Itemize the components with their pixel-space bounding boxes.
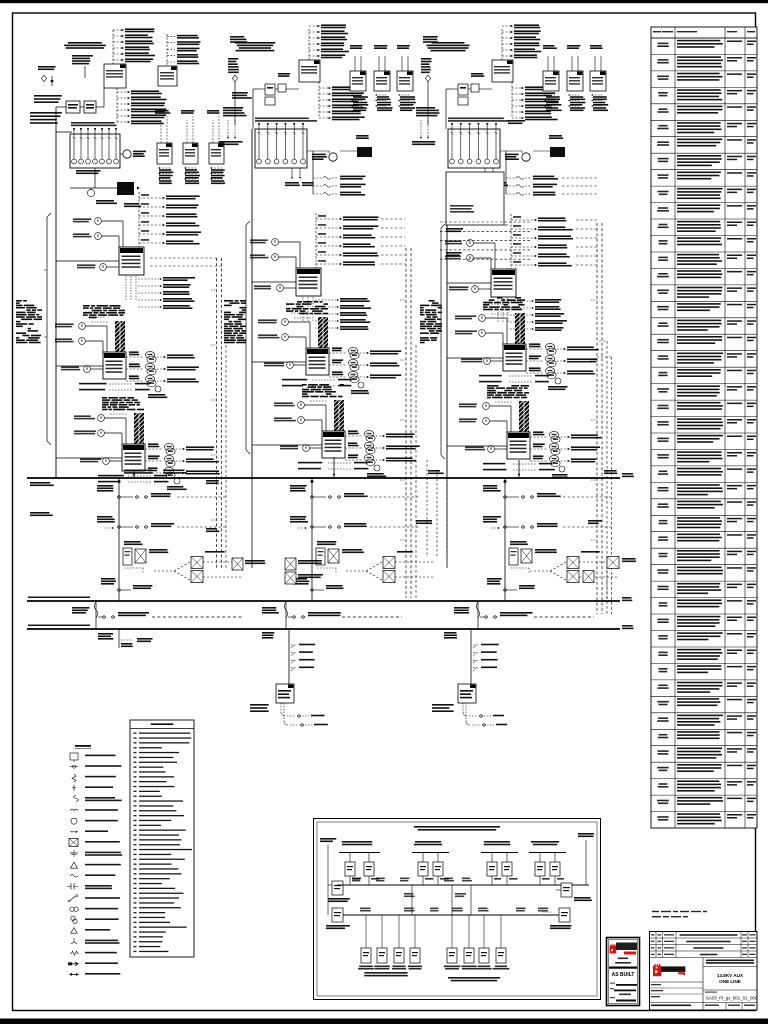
- T3 output drops to bus1: [133, 471, 135, 478]
- wire lockout to transformer 1A-T3: [109, 460, 122, 462]
- riser label column: [421, 58, 432, 125]
- bay C feeder desc: [420, 300, 442, 343]
- relay 52-A2: [158, 66, 177, 86]
- transformer 1A-T2: [103, 352, 126, 379]
- inset tier A to B drops: [411, 885, 413, 915]
- lockout relay transformer 1B-T2: [264, 362, 293, 369]
- dashes above transformer 1A-T2: [85, 312, 109, 322]
- breaker row 2 bay C: [483, 516, 613, 529]
- tie fan A-B: [154, 551, 243, 583]
- transformer 1A-T3: [122, 444, 145, 471]
- wire lockout to transformer 1A-T2: [90, 368, 103, 370]
- breaker row 2 bay B: [290, 516, 420, 529]
- trip fanout below relay 3: [591, 94, 608, 111]
- wire lockout to transformer 1B-T3: [309, 447, 322, 449]
- inset right standby label: [578, 833, 594, 835]
- wire to transformer feeder 1B-T1 b: [278, 256, 296, 258]
- aux fanout below transformer 1B-T2: [282, 379, 352, 387]
- lockout transformer feeder 1A-T1: [77, 264, 106, 271]
- equipment schedule table: [651, 27, 757, 828]
- bay A taps: [56, 260, 119, 262]
- reference notes: [652, 911, 707, 918]
- legend symbol list: [67, 753, 122, 976]
- breaker row 3 bay A: [101, 578, 152, 591]
- cable bundle below transformer feeder 1A-T1: [126, 276, 136, 301]
- page bottom border bar: [0, 1019, 768, 1025]
- swgr A below tags: [96, 200, 114, 202]
- fan-up feeders above relay 52-A1: [113, 28, 155, 64]
- inset right dots: [542, 911, 552, 913]
- bay B-C long feeders: [440, 222, 530, 259]
- pt cluster left A: [30, 66, 62, 124]
- panel label stack DC panel C: [444, 632, 457, 634]
- fanout below-right of transformer feeder 1C-T1: [510, 299, 567, 331]
- trip fanout below relay 50/51-A3: [210, 167, 225, 184]
- inset breaker g4 x535: [535, 862, 545, 876]
- fan-up feeders above transformer feeder 1B-T1: [316, 213, 405, 268]
- svg-text:ONE LINE: ONE LINE: [719, 979, 741, 984]
- swgr C lower enclosure: [446, 172, 504, 225]
- surge arrester transformer 1C-T2: [548, 378, 568, 390]
- trip fanout below relay 2: [375, 94, 393, 111]
- riser stubs bay B: [400, 299, 406, 301]
- inset source group 4 header: [531, 841, 559, 843]
- wire relay b to transformer 1B-T2: [288, 336, 306, 338]
- wire lockout transformer feeder 1A-T1: [106, 266, 119, 268]
- wire riser to swgr: [446, 88, 452, 90]
- mid feeder rows: [506, 176, 558, 196]
- pt lines above relay 50/51-A2: [181, 110, 194, 143]
- riser extra verticals bay C: [599, 340, 607, 342]
- breaker row 1 bay C: [483, 485, 613, 498]
- feeder fanout right of transformer 1C-T2: [526, 343, 599, 378]
- drop DC panel B: [288, 629, 290, 684]
- incoming line label 13.8KV: [235, 42, 276, 44]
- aux relay a transformer 1C-T3: [459, 403, 489, 410]
- riser dashed pair bay B: [405, 248, 407, 598]
- bus tie row C: [454, 601, 594, 618]
- bay C taps: [447, 282, 491, 284]
- aux relay b transformer 1A-T2: [55, 338, 85, 345]
- bay A main vertical: [55, 132, 57, 478]
- aux relay b transformer 1C-T2: [455, 330, 485, 337]
- bus drop bay A: [118, 478, 120, 601]
- pt line above relay 1: [350, 45, 362, 71]
- bus2-3 connector B: [285, 601, 287, 629]
- feeder fanout right of transformer 1A-T3: [145, 443, 220, 478]
- wire relay a to transformer 1C-T2: [485, 317, 507, 319]
- td boxes: [259, 73, 299, 105]
- inset breaker g3 x487: [487, 862, 497, 876]
- wire lockout to transformer 1B-T2: [293, 364, 306, 366]
- wire relay b to transformer 1B-T3: [304, 419, 322, 421]
- fan-up feeders above incoming relay: [502, 24, 541, 60]
- relay 52-A1: [104, 64, 126, 88]
- bay B aux risers: [426, 460, 428, 557]
- bay A riser top links: [150, 257, 217, 259]
- top tags right of C swgr: [508, 120, 525, 122]
- trip fanout below relay 1: [351, 94, 368, 111]
- spare boxes middle: [232, 558, 323, 584]
- bus1 junction dots: [118, 480, 120, 482]
- bus1 end label: [622, 473, 633, 475]
- wire to transformer feeder 1B-T1 a: [278, 241, 300, 243]
- notes list box: [130, 720, 194, 957]
- swgr bottom drops: [478, 168, 508, 186]
- cable tags transformer 1A-T2: [83, 305, 125, 318]
- cable run hatching transformer 1B-T3: [334, 400, 344, 431]
- transformer 1B-T2: [306, 348, 329, 375]
- wire swgr to meter: [500, 150, 522, 152]
- bus tie row A: [72, 601, 242, 618]
- inset fuse box left a: [332, 881, 343, 895]
- riser stubs bay A: [211, 289, 217, 291]
- riser stubs bay C: [591, 299, 597, 301]
- legend title: [75, 745, 91, 747]
- bay C aux riser: [606, 557, 608, 600]
- protection relay a transformer feeder 1B-T1: [250, 239, 278, 246]
- cable bundle below transformer feeder 1C-T1: [498, 298, 508, 323]
- cable tags transformer 1B-T3: [302, 384, 344, 397]
- fan-up feeders above transformer feeder 1A-T1: [139, 192, 201, 247]
- wire relay b to transformer 1A-T3: [104, 432, 122, 434]
- incoming line label 13.8KV bus A: [68, 42, 102, 44]
- wire to transformer feeder 1C-T1 a: [473, 242, 495, 244]
- fan above panel DC panel B: [291, 644, 315, 671]
- bus2-3 connector C: [477, 601, 479, 629]
- trip fanout below relay 1: [544, 94, 562, 111]
- dashes above transformer 1A-T3: [104, 404, 128, 414]
- inset tier A line: [337, 884, 589, 886]
- bus1 label b: [163, 470, 184, 472]
- top tags B-C gap: [423, 36, 438, 38]
- transformer feeder 1B-T1: [296, 268, 321, 296]
- fan above panel DC panel C: [473, 644, 499, 671]
- riser label stack A: [72, 55, 93, 78]
- feeder fanout right of transformer 1A-T2: [126, 351, 199, 386]
- inset bottom breakers row: [358, 915, 509, 970]
- inset fuse box left b: [332, 908, 343, 922]
- trip fanout below relay 50/51-A2: [184, 167, 200, 184]
- aux fanout below transformer 1C-T2: [479, 375, 549, 383]
- td boxes: [452, 73, 492, 105]
- wire lockout transformer feeder 1B-T1: [283, 287, 296, 289]
- cable tags transformer 1C-T2: [483, 297, 525, 310]
- aux fanout below transformer 1C-T3: [483, 463, 555, 471]
- inset source group 3 tie bar: [481, 852, 518, 854]
- aux label cluster w drops: [219, 107, 247, 145]
- bus1 left small labels: [30, 482, 50, 484]
- top tags A-B gap: [230, 36, 244, 38]
- enclosure feeder long dashes: [562, 178, 597, 194]
- aux relay b transformer 1C-T3: [459, 418, 489, 425]
- relay box 1: [543, 71, 559, 91]
- breaker row 1 bay A: [97, 485, 227, 498]
- wire lockout to transformer 1C-T2: [490, 360, 503, 362]
- mid feeder rows: [313, 176, 366, 196]
- svg-text:13.8KV AUX: 13.8KV AUX: [717, 973, 744, 978]
- lockout relay transformer 1A-T3: [80, 458, 109, 465]
- swgr meter: [312, 153, 337, 161]
- inset source group 4 tie bar: [529, 852, 566, 854]
- fan-up feeders above relay 52-A2: [167, 34, 201, 66]
- bus 480V no.1: [27, 477, 620, 479]
- swgr bottom drops: [285, 168, 314, 186]
- dashes above transformer 1B-T3: [304, 391, 328, 401]
- bus3 left label: [28, 625, 90, 627]
- fanout below-right of transformer feeder 1A-T1: [138, 277, 195, 309]
- fanout below-right of transformer feeder 1B-T1: [315, 298, 371, 330]
- inset bottom group label 2: [448, 977, 500, 979]
- bay B vertical below bus1: [251, 478, 253, 568]
- cable run hatching transformer 1A-T3: [134, 413, 144, 444]
- wire relay b to transformer 1A-T2: [85, 340, 103, 342]
- aux relay a transformer 1B-T2: [258, 319, 288, 326]
- swgr meter: [505, 153, 530, 161]
- wire swgr to meter: [307, 150, 329, 152]
- panel left labels DC panel C: [432, 704, 454, 706]
- aux fanout below transformer 1A-T3: [98, 475, 168, 483]
- bus3 bay A tap: [118, 629, 120, 648]
- aux fanout below transformer 1A-T2: [79, 383, 150, 391]
- relay box 2: [374, 71, 390, 91]
- svg-text:SA03_PI_gz_001_01_000: SA03_PI_gz_001_01_000: [706, 996, 758, 1001]
- surge arrester transformer 1B-T3: [367, 465, 386, 477]
- inset source group 2 tie bar: [412, 852, 449, 854]
- bus 480V no.2: [27, 600, 620, 602]
- wire to transformer feeder 1C-T1 b: [473, 257, 491, 259]
- wire main vertical bay A: [55, 107, 57, 132]
- inset mid labels: [404, 893, 413, 895]
- protection relay b transformer feeder 1A-T1: [73, 233, 101, 240]
- trip fanout below relay 2: [568, 94, 586, 111]
- bay B bracket: [245, 225, 247, 450]
- title block: [650, 932, 758, 1011]
- station service box: [549, 135, 562, 137]
- wire relay a to transformer 1C-T3: [489, 405, 511, 407]
- riser tags bay C: [588, 520, 602, 522]
- bay C main vertical: [446, 225, 448, 478]
- relay 50/51-A1: [157, 143, 172, 164]
- inset bottom group label 1: [364, 972, 407, 974]
- inset right drop: [585, 840, 587, 885]
- wire to transformer feeder 1A-T1 a: [101, 220, 123, 222]
- wire lockout transformer feeder 1C-T1: [478, 288, 491, 290]
- lockout transformer feeder 1B-T1: [254, 285, 283, 292]
- pt line above relay 3: [397, 45, 410, 71]
- feeder drop to T1: [505, 151, 507, 194]
- breaker row 3 bay C: [487, 578, 535, 591]
- aux relay a transformer 1C-T2: [455, 315, 485, 322]
- aux relay a transformer 1B-T3: [274, 402, 304, 409]
- feeder fanout below relay 52-A1: [117, 88, 167, 124]
- inset right fuse a: [561, 883, 572, 897]
- bus2 left label: [28, 597, 90, 599]
- panel left labels DC panel B: [250, 704, 269, 706]
- inset breaker g1 x364: [364, 862, 374, 876]
- lockout relay transformer 1C-T2: [461, 358, 490, 365]
- wire relay b to transformer 1C-T3: [489, 420, 507, 422]
- bay A feeder desc: [16, 300, 42, 343]
- riser tags bay A: [206, 480, 219, 482]
- riser tags bay B: [416, 520, 432, 522]
- surge arrester transformer 1B-T2: [351, 382, 369, 394]
- inset source group 2 header: [415, 841, 441, 843]
- page top border bar: [0, 0, 768, 3]
- feeder fanout right of transformer 1B-T3: [345, 430, 420, 465]
- cpt box A-2: [84, 101, 96, 113]
- aux relay b transformer 1B-T2: [258, 334, 288, 341]
- dashes above transformer 1B-T2: [288, 308, 312, 318]
- cable tags transformer 1A-T3: [102, 397, 144, 410]
- inset detail box: [314, 819, 601, 1000]
- transformer 1B-T3: [322, 431, 345, 458]
- drop DC panel C: [470, 629, 472, 684]
- pt lines above relay 50/51-A3: [207, 110, 220, 143]
- transformer feeder 1C-T1: [491, 269, 516, 297]
- enclosure tags: [450, 205, 473, 207]
- feeder fanout right of transformer 1B-T2: [329, 347, 401, 382]
- relay box 3: [590, 71, 606, 91]
- inset breaker g3 x502: [502, 862, 512, 876]
- pt lines above relay 50/51-A1: [155, 110, 170, 143]
- inset right fuse b: [559, 908, 570, 922]
- fan-up feeders above transformer feeder 1C-T1: [511, 214, 597, 269]
- pt line above relay 2: [567, 45, 580, 71]
- tie fan C-right: [530, 551, 619, 583]
- inset source group 3 header: [484, 841, 510, 843]
- inset utility drop: [327, 845, 329, 915]
- breaker row 2 bay A: [97, 516, 227, 529]
- transformer feeder 1A-T1: [119, 247, 144, 275]
- wire relay a to transformer 1A-T2: [85, 325, 107, 327]
- cable bundle below transformer feeder 1B-T1: [303, 297, 313, 322]
- inset source group 1 tie bar: [339, 852, 380, 854]
- as-built stamp: [607, 938, 640, 1006]
- inset tier B line: [343, 914, 562, 916]
- svg-text:AS BUILT: AS BUILT: [612, 972, 635, 978]
- tie fan B-C: [346, 551, 435, 583]
- swgr top labels: [255, 118, 309, 120]
- cpt box A-1: [66, 101, 80, 113]
- riser dashed pair bay C: [596, 223, 598, 614]
- swgr A outgoing drop: [70, 168, 140, 197]
- fan-up feeders above incoming relay: [309, 24, 349, 60]
- ats box bay B: [316, 541, 364, 573]
- breaker row 3 bay B: [294, 578, 344, 591]
- tie breaker boxes right: [583, 557, 636, 583]
- swgr A top labels: [71, 122, 115, 124]
- cable run hatching transformer 1A-T2: [115, 321, 125, 352]
- swgr top labels: [448, 118, 504, 120]
- protection relay b transformer feeder 1C-T1: [445, 255, 473, 262]
- incoming line label 13.8KV: [432, 42, 465, 44]
- feeder fanout below incoming relay: [319, 82, 365, 120]
- cable tags transformer 1B-T2: [286, 301, 328, 314]
- station service box: [356, 135, 369, 137]
- lockout relay transformer 1A-T2: [61, 366, 90, 373]
- wire cpt to swgr A: [56, 106, 66, 108]
- wire swgr A to meter: [120, 153, 123, 155]
- pt line above relay 3: [590, 45, 603, 71]
- wire lockout to transformer 1C-T3: [494, 448, 507, 450]
- inset source group 1 header: [342, 841, 373, 843]
- meter M-A: [123, 150, 146, 158]
- inset tier junction labels A: [352, 878, 472, 882]
- wire riser to swgr: [253, 88, 259, 90]
- lockout relay transformer 1C-T3: [465, 446, 494, 453]
- trip fanout below relay 3: [398, 94, 416, 111]
- panel box DC panel C: [458, 684, 476, 703]
- bus1 label a: [124, 470, 152, 472]
- feeder fanout right of transformer 1C-T3: [530, 431, 601, 466]
- wire relay a to transformer 1B-T2: [288, 321, 310, 323]
- aux relay b transformer 1A-T3: [74, 430, 104, 437]
- lockout relay transformer 1B-T3: [280, 445, 309, 452]
- dashes above transformer 1C-T3: [489, 392, 513, 402]
- surge arrester transformer 1A-T3: [167, 478, 187, 490]
- switchgear 480V: [448, 123, 500, 168]
- panel below fans DC panel B: [281, 703, 328, 726]
- bay C bracket: [440, 228, 442, 455]
- inset breaker g2 x418: [418, 862, 428, 876]
- inset title: [414, 826, 500, 828]
- dashes above transformer 1C-T2: [485, 304, 509, 314]
- feeder drop to T1: [312, 151, 314, 194]
- bus2-3 connector A: [95, 601, 97, 629]
- ats box bay A: [123, 541, 168, 573]
- feeder fanout below incoming relay: [512, 82, 559, 120]
- riser extra vertical bay A: [225, 345, 227, 570]
- surge arrester transformer 1A-T2: [148, 386, 167, 398]
- wire relay a to transformer 1A-T3: [104, 417, 126, 419]
- surge arrester transformer 1C-T3: [552, 466, 568, 478]
- cable tags transformer 1C-T3: [487, 385, 529, 398]
- trip fanout below relay 50/51-A1: [158, 167, 173, 184]
- pt line above relay 1: [543, 45, 557, 71]
- bus3 end label: [622, 625, 633, 627]
- lockout transformer feeder 1C-T1: [449, 286, 478, 293]
- panel box DC panel B: [276, 684, 294, 703]
- aux relay a transformer 1A-T3: [74, 415, 104, 422]
- aux relay a transformer 1A-T2: [55, 323, 85, 330]
- bay B taps: [252, 281, 296, 283]
- bus drop bay C: [504, 478, 506, 601]
- inset utility label left: [320, 838, 336, 840]
- feeder tags B-C: [446, 228, 463, 230]
- bus drop bay B: [311, 478, 313, 601]
- protection relay a transformer feeder 1C-T1: [445, 240, 473, 247]
- relay box 1: [350, 71, 366, 91]
- transformer 1C-T2: [503, 344, 526, 371]
- aux fanout below transformer 1B-T3: [298, 462, 368, 470]
- switchgear 480V: [255, 123, 307, 168]
- wire to transformer feeder 1A-T1 b: [101, 235, 119, 237]
- bay B feeder desc: [224, 300, 246, 343]
- bus2 end label: [622, 597, 631, 599]
- bus 480V no.3: [27, 628, 620, 630]
- switchgear SWGR-A 480V: [70, 128, 120, 168]
- relay 52 incoming: [492, 60, 513, 82]
- bay C vertical below bus1: [446, 478, 448, 568]
- riser label column: [228, 58, 239, 125]
- inset tier junction labels B: [360, 908, 548, 912]
- bay A bracket: [46, 217, 48, 441]
- relay 50/51-A3: [209, 143, 224, 164]
- relay box 3: [397, 71, 413, 91]
- pt line above relay 2: [374, 45, 387, 71]
- riser dashed pair bay A: [216, 258, 218, 570]
